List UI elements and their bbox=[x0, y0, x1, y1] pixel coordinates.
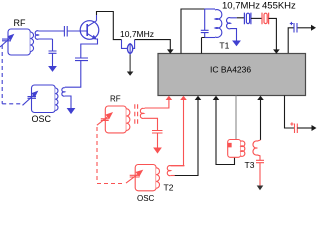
svg-text:OSC: OSC bbox=[32, 114, 52, 124]
svg-text:T1: T1 bbox=[219, 41, 229, 51]
svg-text:IC BA4236: IC BA4236 bbox=[210, 64, 251, 74]
svg-text:10,7MHz: 10,7MHz bbox=[222, 1, 260, 12]
svg-text:10,7MHz: 10,7MHz bbox=[120, 29, 154, 39]
svg-text:455KHz: 455KHz bbox=[262, 1, 296, 12]
svg-text:OSC: OSC bbox=[137, 194, 155, 203]
svg-text:T3: T3 bbox=[245, 160, 255, 170]
svg-text:T2: T2 bbox=[164, 183, 174, 193]
svg-text:RF: RF bbox=[110, 95, 121, 104]
svg-text:RF: RF bbox=[14, 18, 26, 28]
